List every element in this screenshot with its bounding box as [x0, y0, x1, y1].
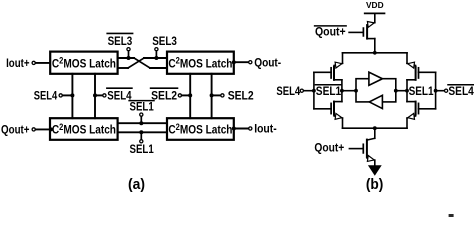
- wire top rail: [343, 52, 408, 54]
- terminal SEL4: [59, 94, 62, 97]
- terminal Iout-: [249, 127, 252, 130]
- caption (a): [128, 177, 145, 193]
- node SEL1 label (b): [409, 84, 434, 98]
- source arrow: [335, 113, 342, 119]
- junction dot loop right: [394, 89, 398, 93]
- wire crossover diagonal up: [128, 58, 144, 68]
- drain lead vertical: [374, 128, 376, 138]
- junction dot SEL3bar: [127, 56, 131, 60]
- transistor PMOS M3 (top-right): [407, 62, 419, 91]
- node SEL2bar label: [151, 89, 177, 103]
- channel: [415, 67, 417, 80]
- source lead vertical: [342, 118, 344, 128]
- caption (b): [366, 177, 384, 193]
- junction dot latch3 input: [49, 127, 53, 131]
- overline SEL4bar (b): [448, 84, 474, 86]
- terminal SEL3: [155, 48, 158, 51]
- gate bar: [418, 103, 420, 113]
- terminal SEL1bar: [140, 113, 143, 116]
- inverter bottom (pointing left): [369, 95, 382, 108]
- source lead diagonal: [367, 23, 375, 25]
- gate bracket left (SEL4) top horizontal: [314, 71, 331, 73]
- wire crossover lower-left horizontal: [118, 67, 128, 69]
- drain lead jog: [367, 138, 375, 140]
- svg-text:SEL3: SEL3: [108, 34, 133, 48]
- terminal Iout+: [32, 61, 35, 64]
- drain lead diagonal: [407, 79, 416, 81]
- wire Qout+ to latch3: [36, 128, 51, 130]
- drain lead vertical: [341, 91, 343, 102]
- gate bracket left vertical: [313, 72, 315, 109]
- inverter top (pointing right): [369, 72, 383, 85]
- wire SEL1bar stub: [140, 116, 142, 123]
- wire SEL4: [63, 94, 73, 96]
- svg-text:SEL4: SEL4: [34, 89, 58, 103]
- transistor NMOS M4 (bottom-right): [407, 91, 419, 129]
- svg-text:SEL4: SEL4: [276, 84, 300, 98]
- wire latch2 to Qout-: [234, 61, 249, 63]
- terminal SEL1: [140, 140, 143, 143]
- power VDD label: [366, 1, 384, 10]
- terminal SEL2bar: [178, 94, 181, 97]
- channel: [366, 25, 368, 38]
- overline SEL1bar: [129, 100, 154, 102]
- wire SEL1 stub: [140, 132, 142, 139]
- transistor NMOS M2 (bottom-left): [331, 91, 342, 129]
- drain lead vertical: [406, 80, 408, 91]
- junction dot SEL4bar bracket: [434, 89, 438, 93]
- terminal SEL4bar: [103, 94, 106, 97]
- svg-text:SEL4: SEL4: [448, 84, 474, 98]
- overline SEL4bar: [107, 87, 132, 89]
- wire SEL4 terminal: [303, 90, 314, 92]
- terminal SEL4: [300, 89, 303, 92]
- overline SEL1bar (b): [315, 84, 341, 86]
- wire crossover diagonal down: [134, 58, 150, 68]
- junction dot SEL4: [70, 93, 74, 97]
- wire SEL4bar terminal: [436, 90, 445, 92]
- source arrow: [408, 113, 415, 119]
- gate bar: [330, 103, 332, 113]
- junction dot latch2 output: [232, 60, 236, 64]
- node Iout- label: [254, 122, 277, 136]
- source lead diagonal: [334, 116, 343, 118]
- source lead vertical: [406, 118, 408, 128]
- footnote mark bottom-right: [449, 214, 454, 217]
- overline SEL3bar: [107, 32, 132, 34]
- junction dot at latch1 input: [49, 61, 53, 65]
- svg-text:(a): (a): [128, 177, 145, 193]
- junction dot right latch node: [405, 89, 409, 93]
- source arrow: [335, 62, 342, 68]
- gate bar: [362, 144, 364, 153]
- terminal SEL4bar: [445, 89, 448, 92]
- node SEL1bar label: [130, 99, 154, 113]
- gate bracket right (SEL4bar) top horizontal: [419, 71, 436, 73]
- wire top rail left drop: [342, 53, 344, 64]
- svg-text:VDD: VDD: [366, 1, 384, 10]
- wire SEL3 stub: [155, 51, 157, 58]
- wire Iout+ to latch1: [36, 62, 52, 64]
- wire Qout+bar to tail pmos gate: [349, 31, 363, 33]
- wire SEL3bar stub: [128, 51, 130, 58]
- node SEL4 label (b): [276, 84, 300, 98]
- gate bar: [418, 68, 420, 78]
- wire SEL4bar: [95, 94, 103, 96]
- terminal Qout+: [32, 128, 35, 131]
- wire left node to loop: [342, 90, 356, 92]
- wire bottom rail: [343, 127, 408, 129]
- terminal SEL2: [221, 94, 224, 97]
- junction dot SEL4 bracket: [312, 89, 316, 93]
- node Qout+ label (b): [314, 141, 344, 155]
- junction dot latch4 output: [232, 127, 236, 131]
- terminal SEL3bar: [127, 48, 130, 51]
- wire vertical v4: [211, 74, 213, 118]
- wire latch4 to Iout-: [234, 128, 249, 130]
- junction dot bottom rail: [373, 126, 377, 130]
- node Qout+bar label: [315, 25, 346, 39]
- wire SEL2: [212, 94, 221, 96]
- node Qout+ label: [1, 122, 30, 136]
- source arrow: [367, 156, 374, 162]
- wire VDD to tail pmos source: [374, 13, 376, 22]
- ground symbol: [368, 165, 382, 176]
- node Qout- label: [254, 55, 281, 69]
- C2MOS latch box 4 (bottom-right): [167, 118, 234, 140]
- svg-text:SEL1: SEL1: [130, 99, 154, 113]
- transistor tail PMOS M5: [363, 22, 374, 53]
- svg-text:Iout+: Iout+: [6, 56, 29, 70]
- source lead diagonal: [367, 158, 375, 160]
- gate bar: [330, 68, 332, 78]
- wire loop rectangle: [356, 79, 396, 102]
- wire crossover lower-right horizontal: [150, 67, 167, 69]
- node SEL4 label: [34, 89, 58, 103]
- gate bar: [362, 28, 364, 36]
- junction dot SEL2bar: [188, 93, 192, 97]
- node SEL3 label: [152, 34, 177, 48]
- svg-text:Qout+: Qout+: [314, 141, 344, 155]
- svg-text:(b): (b): [366, 177, 384, 193]
- svg-text:Qout+: Qout+: [315, 25, 346, 39]
- overline Qout+bar: [315, 25, 347, 27]
- node SEL3bar label: [108, 34, 133, 48]
- drain lead vertical: [374, 39, 376, 53]
- drain lead diagonal: [334, 79, 342, 81]
- svg-text:SEL4: SEL4: [107, 89, 131, 103]
- junction dot SEL3: [154, 56, 158, 60]
- transistor tail NMOS M6: [363, 128, 375, 166]
- wire latch3-latch4 lower: [118, 131, 167, 133]
- node SEL4bar label (b): [448, 84, 474, 98]
- junction dot SEL4bar: [93, 93, 97, 97]
- C2MOS latch box 1 (top-left): [50, 52, 117, 74]
- transistor PMOS M1 (top-left): [331, 62, 342, 91]
- svg-text:Iout-: Iout-: [254, 122, 277, 136]
- source lead vertical: [374, 160, 376, 166]
- svg-text:SEL3: SEL3: [152, 34, 177, 48]
- svg-text:Qout-: Qout-: [254, 55, 281, 69]
- source arrow: [367, 22, 374, 28]
- power VDD rail: [365, 12, 385, 14]
- wire vertical v3: [189, 74, 191, 118]
- svg-text:SEL2: SEL2: [151, 89, 177, 103]
- C2MOS latch box 2 (top-right): [167, 52, 234, 74]
- channel: [366, 140, 368, 157]
- gate bracket right vertical: [435, 72, 437, 109]
- source lead diagonal: [407, 116, 416, 118]
- junction dot SEL1bar: [139, 121, 143, 125]
- wire SEL2bar: [182, 94, 191, 96]
- wire right node to loop: [396, 90, 407, 92]
- source lead diagonal: [407, 63, 416, 65]
- node SEL2 label: [228, 89, 254, 103]
- node SEL4bar label: [107, 89, 131, 103]
- svg-text:Qout+: Qout+: [1, 122, 30, 136]
- junction dot top rail: [373, 51, 377, 55]
- node SEL1 label: [130, 142, 154, 156]
- wire crossover upper-right horizontal: [144, 57, 167, 59]
- wire top rail right drop: [406, 53, 408, 64]
- junction dot left latch node: [340, 89, 344, 93]
- svg-text:SEL1: SEL1: [130, 142, 154, 156]
- source lead diagonal: [334, 63, 343, 65]
- svg-text:SEL1: SEL1: [409, 84, 434, 98]
- C2MOS latch box 3 (bottom-left): [50, 118, 118, 140]
- channel: [415, 102, 417, 115]
- channel: [333, 67, 335, 80]
- junction dot SEL1: [139, 130, 143, 134]
- drain lead horizontal: [407, 101, 416, 103]
- overline SEL2bar: [151, 87, 178, 89]
- node SEL1bar label (b): [316, 84, 342, 98]
- terminal Qout-: [249, 61, 252, 64]
- gate bracket left bottom horizontal: [314, 108, 331, 110]
- drain lead vertical: [406, 91, 408, 102]
- wire vertical v1: [71, 74, 73, 118]
- drain lead diagonal: [367, 38, 375, 40]
- channel: [333, 102, 335, 115]
- gate bracket right bottom horizontal: [419, 108, 436, 110]
- source arrow: [408, 62, 415, 68]
- wire Qout+ to tail nmos gate: [349, 148, 362, 150]
- wire crossover upper-left horizontal: [118, 57, 134, 59]
- svg-text:SEL1: SEL1: [316, 84, 342, 98]
- svg-text:SEL2: SEL2: [228, 89, 254, 103]
- junction dot SEL2: [210, 93, 214, 97]
- drain lead vertical: [341, 80, 343, 91]
- drain lead horizontal: [334, 101, 342, 103]
- wire latch3-latch4 upper: [118, 122, 167, 124]
- junction dot loop left: [354, 89, 358, 93]
- wire vertical v2: [94, 74, 96, 118]
